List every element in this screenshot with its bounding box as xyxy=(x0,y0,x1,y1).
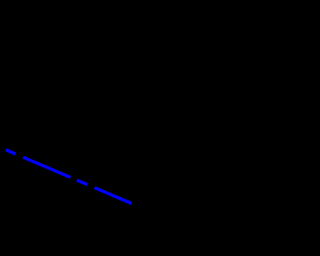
dashed blue line xyxy=(6,150,132,204)
